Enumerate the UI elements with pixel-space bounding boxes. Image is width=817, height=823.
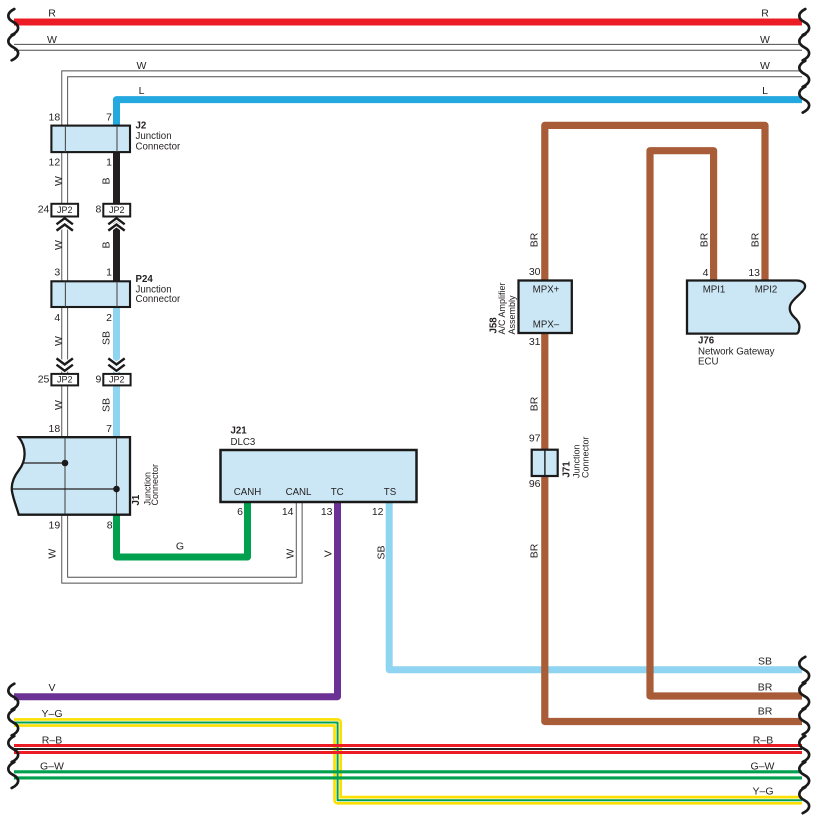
break symbol wire W left <box>8 34 18 60</box>
svg-text:G–W: G–W <box>40 760 64 772</box>
node (internal bus) <box>22 462 65 464</box>
svg-text:13: 13 <box>748 267 760 279</box>
svg-text:G–W: G–W <box>751 760 775 772</box>
svg-text:MPX–: MPX– <box>533 320 560 331</box>
svg-text:Junction: Junction <box>136 131 172 142</box>
svg-text:R: R <box>761 8 769 20</box>
svg-text:L: L <box>762 85 768 97</box>
svg-text:J76: J76 <box>698 336 715 347</box>
label J2 <box>136 121 181 153</box>
break symbol wire R left <box>8 9 18 35</box>
svg-text:B: B <box>101 241 113 248</box>
svg-text:W: W <box>47 34 57 46</box>
twisted-pair arrow on wire B above JP2 (8) <box>108 218 124 230</box>
svg-text:W: W <box>760 60 770 72</box>
break symbol wire Y-G left <box>8 710 18 736</box>
svg-text:25: 25 <box>38 374 50 386</box>
svg-text:3: 3 <box>54 267 60 279</box>
break symbol wire R right <box>799 9 809 35</box>
wire BR (brown) J76 MPI1 pin 4 to right edge <box>650 151 802 696</box>
svg-text:18: 18 <box>49 112 61 124</box>
svg-text:BR: BR <box>699 232 711 247</box>
svg-text:31: 31 <box>529 336 541 348</box>
svg-text:1: 1 <box>106 157 112 169</box>
svg-text:V: V <box>48 682 55 694</box>
svg-text:DLC3: DLC3 <box>231 437 256 448</box>
svg-text:CANH: CANH <box>234 487 261 498</box>
A/C amplifier J58 <box>519 281 572 334</box>
wire SB (light blue) P24 pin 2 to J1 pin 7 <box>113 306 120 438</box>
svg-text:BR: BR <box>750 232 762 247</box>
break symbol wire BR right lower <box>799 709 809 735</box>
svg-text:W: W <box>47 549 59 559</box>
svg-text:SB: SB <box>101 398 113 412</box>
svg-text:8: 8 <box>107 519 113 531</box>
twisted-pair arrow on wire W above JP2 (25) <box>57 358 73 370</box>
wire L (blue) from top-right to J2 pin 7 <box>117 100 803 126</box>
svg-text:Connector: Connector <box>136 142 181 153</box>
label P24 <box>136 274 181 305</box>
svg-text:W: W <box>137 60 147 72</box>
svg-text:A/C Amplifier: A/C Amplifier <box>497 282 507 334</box>
break symbol wire BR right upper <box>799 683 809 709</box>
svg-text:SB: SB <box>376 545 388 559</box>
svg-text:Y–G: Y–G <box>752 786 773 798</box>
svg-text:14: 14 <box>282 506 294 518</box>
network gateway ECU J76 (torn right edge) <box>687 281 805 334</box>
wire W (white) from top-right through left column to J21 CANL pin 14 <box>65 74 802 580</box>
svg-text:JP2: JP2 <box>109 375 125 385</box>
svg-text:Y–G: Y–G <box>41 708 62 720</box>
svg-text:MPI1: MPI1 <box>703 285 726 296</box>
svg-text:2: 2 <box>106 312 112 324</box>
svg-text:1: 1 <box>106 267 112 279</box>
svg-text:BR: BR <box>529 232 541 247</box>
wire BR (brown) J58 MPX+ pin 30 to J76 MPI2 pin 13 <box>545 125 765 281</box>
svg-text:W: W <box>53 240 65 250</box>
connector JP2 (24) <box>51 204 78 217</box>
svg-text:12: 12 <box>372 506 384 518</box>
svg-text:ECU: ECU <box>698 356 718 367</box>
break symbol wire SB right <box>799 657 809 683</box>
svg-text:18: 18 <box>49 423 61 435</box>
svg-text:12: 12 <box>49 157 61 169</box>
svg-text:7: 7 <box>106 423 112 435</box>
svg-text:BR: BR <box>758 681 773 693</box>
wire W (white) horizontal at top <box>14 44 802 51</box>
svg-text:Connector: Connector <box>150 464 160 506</box>
svg-text:Assembly: Assembly <box>507 295 517 335</box>
svg-text:P24: P24 <box>136 274 154 285</box>
wire G-W (green/white) across <box>14 772 802 778</box>
connector JP2 (25) <box>51 374 78 386</box>
break symbol wire L right <box>799 87 809 113</box>
twisted-pair arrow on wire SB above JP2 (9) <box>108 358 124 370</box>
wire Y-G (yellow/green) left edge jog down to right edge <box>14 723 802 801</box>
svg-text:4: 4 <box>54 312 60 324</box>
junction connector J71 <box>532 450 558 476</box>
svg-text:SB: SB <box>758 655 772 667</box>
svg-text:J2: J2 <box>136 121 147 132</box>
svg-text:W: W <box>53 400 65 410</box>
break symbol wire Y-G right <box>799 787 809 813</box>
svg-text:JP2: JP2 <box>109 205 125 215</box>
junction connector J2 <box>51 126 130 153</box>
svg-text:J21: J21 <box>231 426 248 437</box>
junction connector P24 <box>51 281 130 307</box>
wire R (red) horizontal at top <box>14 19 802 26</box>
svg-text:JP2: JP2 <box>57 205 73 215</box>
junction connector J1 (torn left edge) <box>12 437 130 515</box>
label J58 (rotated) <box>489 282 518 334</box>
svg-text:6: 6 <box>237 506 243 518</box>
svg-text:13: 13 <box>321 506 333 518</box>
wire G (green) J1 pin 8 to J21 CANH pin 6 <box>117 501 248 557</box>
wire SB (light blue) J21 TS pin 12 to right edge <box>389 501 802 670</box>
wire B (black) J2 pin 1 to P24 pin 1 <box>113 151 120 282</box>
wire BR (brown) J58 MPX- pin 31 through J71 to right edge <box>545 332 802 722</box>
svg-text:19: 19 <box>49 519 61 531</box>
svg-text:Connector: Connector <box>581 436 591 478</box>
svg-text:MPX+: MPX+ <box>533 285 560 296</box>
svg-text:W: W <box>760 34 770 46</box>
label J71 (rotated) <box>562 436 591 478</box>
svg-text:96: 96 <box>529 478 541 490</box>
svg-text:W: W <box>285 549 297 559</box>
svg-text:30: 30 <box>529 266 541 278</box>
break symbol wire W right <box>799 34 809 60</box>
svg-text:SB: SB <box>101 331 113 345</box>
svg-text:BR: BR <box>758 706 773 718</box>
node (internal bus) <box>13 488 117 490</box>
svg-text:J1: J1 <box>131 494 142 505</box>
svg-text:B: B <box>101 177 113 184</box>
label J76 <box>698 336 775 368</box>
svg-text:Connector: Connector <box>136 294 181 305</box>
svg-text:R–B: R–B <box>42 735 62 747</box>
svg-text:97: 97 <box>529 433 541 445</box>
connector JP2 (9) <box>103 374 130 386</box>
svg-text:4: 4 <box>703 267 709 279</box>
break symbol wire G-W right <box>799 762 809 788</box>
svg-text:JP2: JP2 <box>57 375 73 385</box>
wire V (violet) J21 TC pin 13 to left edge <box>14 501 338 697</box>
break symbol wire R-B left <box>8 736 18 762</box>
svg-text:G: G <box>176 540 184 552</box>
connector J21 DLC3 <box>221 450 417 502</box>
svg-text:W: W <box>53 176 65 186</box>
svg-text:V: V <box>323 550 335 557</box>
svg-text:TC: TC <box>331 487 344 498</box>
wire R-B (red/black) across <box>14 746 802 753</box>
svg-text:8: 8 <box>95 204 101 216</box>
connector JP2 (8) <box>103 204 130 217</box>
break symbol wire W right lower <box>799 61 809 87</box>
svg-text:9: 9 <box>95 374 101 386</box>
label J1 (rotated) <box>131 464 160 506</box>
svg-text:CANL: CANL <box>286 487 312 498</box>
break symbol wire R-B right <box>799 736 809 762</box>
svg-text:24: 24 <box>38 204 50 216</box>
svg-text:L: L <box>139 85 145 97</box>
svg-text:BR: BR <box>529 543 541 558</box>
svg-text:7: 7 <box>106 112 112 124</box>
svg-text:BR: BR <box>529 396 541 411</box>
svg-text:TS: TS <box>384 487 397 498</box>
svg-text:W: W <box>53 336 65 346</box>
twisted-pair arrow on wire W above JP2 (24) <box>57 218 73 230</box>
svg-text:R–B: R–B <box>753 735 773 747</box>
break symbol wire V left <box>8 684 18 710</box>
break symbol wire G-W left <box>8 762 18 788</box>
svg-text:R: R <box>48 8 56 20</box>
label J21 <box>231 426 256 449</box>
svg-text:MPI2: MPI2 <box>755 285 778 296</box>
